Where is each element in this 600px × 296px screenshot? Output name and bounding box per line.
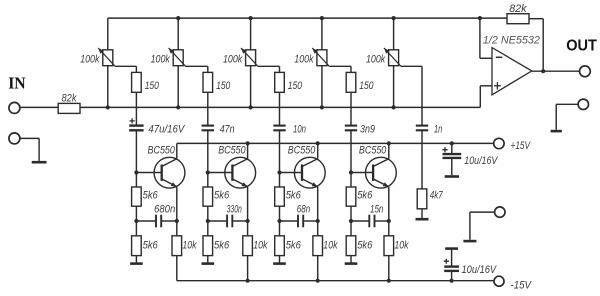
wire 5k6 to mid node band1 [135,206,137,221]
wire pot5 bottom to signal line [393,66,395,108]
ground (input) [32,161,47,164]
wire pot3 wiper to RC chain [258,65,280,67]
wire IN ground terminal [20,137,39,139]
svg-text:10n: 10n [293,123,306,135]
svg-text:10k: 10k [253,239,268,251]
svg-text:4k7: 4k7 [430,190,444,202]
wire pot5 wiper to RC chain [401,65,422,67]
svg-text:5k6: 5k6 [214,190,230,202]
wire 5k6 lower to ground band1 [135,256,137,263]
junction rail / collector Q2 [246,141,250,145]
resistor 10k band2 [243,236,253,256]
wire pot3 bottom to signal line [250,66,252,108]
resistor 82k (input) [58,103,80,113]
wire 5k6 to mid node band4 [350,206,352,221]
junction bus / feedback [478,16,482,20]
wire 150 to cap band1 [135,92,137,125]
wire base node to transistor Q4 [351,172,373,174]
junction rail / decoupling cap [450,141,454,145]
svg-text:1/2 NE5532: 1/2 NE5532 [483,35,540,47]
resistor 5k6 upper band3 [275,187,285,206]
capacitor 680n band1 [136,215,176,228]
wire cap to base node band4 [350,130,352,172]
wire cap 1n down to 4k7 [421,130,423,189]
terminal -15V [494,276,504,286]
junction output / feedback [541,69,545,73]
wire 10k to bottom rail band4 [388,256,390,281]
svg-text:100k: 100k [151,54,171,66]
capacitor 68n band3 [280,215,318,228]
capacitor 10u/16V (-15V decoupling) [444,250,459,281]
svg-text:5k6: 5k6 [357,190,373,202]
wire bottom -15V rail [177,280,494,282]
svg-text:BC550: BC550 [359,145,387,157]
svg-text:68n: 68n [297,203,310,215]
svg-text:5k6: 5k6 [143,239,159,251]
wire base node down to 5k6 band4 [350,173,352,188]
wire base node down to 5k6 band3 [279,173,281,188]
wire collector Q3 to +15V rail [317,143,319,158]
wire signal to non-inverting input [479,86,481,108]
junction bottom rail / decoupling cap [450,279,454,283]
junction emitter line / cap band4 [387,219,391,223]
wire 150 to cap band2 [207,92,209,125]
capacitor 1n band5 [416,125,428,127]
junction bottom rail band3 [316,279,320,283]
svg-text:47n: 47n [220,123,235,135]
svg-text:1n: 1n [434,123,442,135]
wire base node to transistor Q2 [208,172,233,174]
junction mid node band1 [134,219,138,223]
potentiometer 100k band1 [98,48,115,66]
ground band3 [273,262,286,265]
resistor 150 band3 [275,72,285,92]
svg-text:100k: 100k [294,54,314,66]
wire pot5 top to bus [393,18,395,50]
wire base node down to 5k6 band1 [135,173,137,188]
resistor 82k (feedback) [507,14,529,24]
wire 150 to cap band3 [279,92,281,125]
junction rail / collector Q3 [316,141,320,145]
junction bottom rail band2 [246,279,250,283]
resistor 10k band3 [313,236,323,256]
wire emitter Q1 down [176,187,178,236]
op-amp U1 1/2 NE5532 [492,48,532,95]
transistor Q3 BC550 [294,157,325,188]
wire 150 to cap band4 [350,92,352,125]
junction signal line / pot4 [320,105,324,109]
wire feedback resistor to output [529,18,543,20]
wire mid node down to 5k6 lower band4 [350,221,352,236]
transistor Q1 BC550 [154,157,185,188]
capacitor 15n band4 [351,215,389,228]
potentiometer 100k band5 [384,48,401,66]
resistor 5k6 lower band2 [203,236,213,256]
resistor 5k6 lower band3 [275,236,285,256]
wire +15V rail [177,142,494,144]
wire mid node down to 5k6 lower band2 [207,221,209,236]
wire base node down to 5k6 band2 [207,173,209,188]
wire pot2 bottom to signal line [177,66,179,108]
svg-text:IN: IN [8,74,26,93]
resistor 10k band4 [384,236,394,256]
terminal IN ground [9,133,20,144]
wire mid node down to 5k6 lower band3 [279,221,281,236]
ground (power GND) [463,240,476,243]
svg-text:BC550: BC550 [218,145,246,157]
svg-text:5k6: 5k6 [357,239,373,251]
ground (+15V cap) [445,175,459,178]
svg-text:100k: 100k [223,54,243,66]
wire pot4 bottom to signal line [321,66,323,108]
wire 10k to bottom rail band2 [247,256,249,281]
wire base node to transistor Q1 [136,172,161,174]
wire pot4 top to bus [321,18,323,50]
wire pot4 wiper to RC chain [329,65,351,67]
resistor 150 band1 [132,72,142,92]
svg-text:+15V: +15V [511,140,532,152]
junction base node band3 [277,170,281,174]
wire pot1 wiper to RC chain [115,65,136,67]
resistor 5k6 upper band2 [203,187,213,206]
resistor 5k6 lower band1 [132,236,142,256]
svg-text:5k6: 5k6 [214,239,230,251]
resistor 5k6 upper band1 [132,187,142,206]
ground (output) [551,130,562,133]
wire 5k6 to mid node band2 [207,206,209,221]
junction mid node band2 [206,219,210,223]
svg-text:150: 150 [216,80,231,92]
junction base node band1 [134,170,138,174]
svg-text:10k: 10k [182,239,197,251]
wire emitter Q2 down [247,187,249,236]
junction base node band2 [206,170,210,174]
svg-text:10u/16V: 10u/16V [464,155,498,167]
wire 10k to bottom rail band3 [317,256,319,281]
terminal GND (power) [495,207,505,217]
svg-text:100k: 100k [80,54,100,66]
junction base node band4 [349,170,353,174]
wire pot1 bottom to signal line [107,66,109,108]
junction signal line / pot2 [176,105,180,109]
resistor 10k band1 [172,236,182,256]
junction bus / pot5 [392,16,396,20]
wire collector Q1 to +15V rail [176,143,178,158]
wire 4k7 to ground [421,209,423,218]
resistor 4k7 [417,189,427,209]
wire pot2 wiper to RC chain [186,65,208,67]
terminal OUT [580,66,591,77]
junction bus / pot2 [176,16,180,20]
wire mid node down to 5k6 lower band1 [135,221,137,236]
junction signal line / pot3 [249,105,253,109]
wire IN to R 82k [20,106,58,108]
junction bus / pot3 [249,16,253,20]
wire 5k6 to mid node band3 [279,206,281,221]
transistor Q2 BC550 [225,157,256,188]
wire bus to feedback resistor [480,17,507,19]
resistor 5k6 lower band4 [346,236,356,256]
svg-text:100k: 100k [366,54,386,66]
ground (4k7) [416,218,429,221]
capacitor 47u/16V band1 [129,124,143,126]
ground band2 [202,262,215,265]
junction bus / pot4 [320,16,324,20]
capacitor 10n band3 [273,125,285,127]
svg-text:10u/16V: 10u/16V [462,264,498,276]
wire 5k6 lower to ground band3 [279,256,281,263]
svg-text:47u/16V: 47u/16V [148,123,185,135]
svg-text:150: 150 [359,80,374,92]
wire 5k6 lower to ground band4 [350,256,352,263]
junction bottom rail band4 [387,279,391,283]
wire emitter Q4 down [388,187,390,236]
ground (-15V cap) [445,247,458,250]
svg-text:330n: 330n [227,203,242,215]
wire collector Q4 to +15V rail [388,143,390,158]
resistor 150 band4 [346,72,356,92]
svg-text:150: 150 [145,80,160,92]
wire collector Q2 to +15V rail [247,143,249,158]
terminal IN [9,102,20,113]
svg-text:-15V: -15V [511,279,533,291]
resistor 5k6 upper band4 [346,187,356,206]
wire cap to base node band3 [279,130,281,172]
svg-text:5k6: 5k6 [286,239,302,251]
wire OUT ground terminal [556,103,578,105]
junction emitter line / cap band2 [246,219,250,223]
junction emitter line / cap band3 [316,219,320,223]
svg-text:BC550: BC550 [148,145,176,157]
svg-text:680n: 680n [154,203,175,215]
wire op-amp output [532,70,580,72]
svg-text:OUT: OUT [566,38,597,55]
wire 5k6 lower to ground band2 [207,256,209,263]
svg-text:15n: 15n [370,203,383,215]
wire 10k to bottom rail band1 [176,256,178,281]
terminal +15V [494,138,504,148]
capacitor 3n9 band4 [345,125,357,127]
resistor 150 band2 [203,72,213,92]
junction emitter line / cap band1 [175,219,179,223]
svg-text:10k: 10k [394,239,409,251]
wire pot2 top to bus [177,18,179,50]
wire top feedback bus [108,17,480,19]
potentiometer 100k band2 [169,48,186,66]
wire pot1 top to bus [107,18,109,50]
capacitor 47n band2 [202,125,214,127]
svg-text:BC550: BC550 [288,145,316,157]
ground band1 [130,262,143,265]
wire cap to base node band2 [207,130,209,172]
terminal OUT ground [578,99,588,109]
wire cap to base node band1 [135,130,137,172]
junction signal line / pot1 [106,105,110,109]
svg-text:150: 150 [288,80,303,92]
wire base node to transistor Q3 [280,172,303,174]
junction mid node band3 [277,219,281,223]
wire input signal line [80,106,480,108]
svg-text:82k: 82k [509,3,527,15]
capacitor 330n band2 [208,215,248,228]
potentiometer 100k band3 [241,48,258,66]
svg-text:5k6: 5k6 [143,190,159,202]
wire pot3 top to bus [250,18,252,50]
transistor Q4 BC550 [366,157,397,188]
svg-text:3n9: 3n9 [360,123,375,135]
capacitor 10u/16V (+15V decoupling) [442,143,461,175]
ground band4 [345,262,358,265]
wire bus down to inverting input [479,18,481,58]
wire emitter Q3 down [317,187,319,236]
wire GND terminal [470,211,495,213]
potentiometer 100k band4 [312,48,329,66]
junction rail / collector Q4 [387,141,391,145]
svg-text:10k: 10k [323,239,338,251]
svg-text:5k6: 5k6 [286,190,302,202]
junction signal line / pot5 [392,105,396,109]
svg-text:82k: 82k [62,92,77,104]
junction mid node band4 [349,219,353,223]
